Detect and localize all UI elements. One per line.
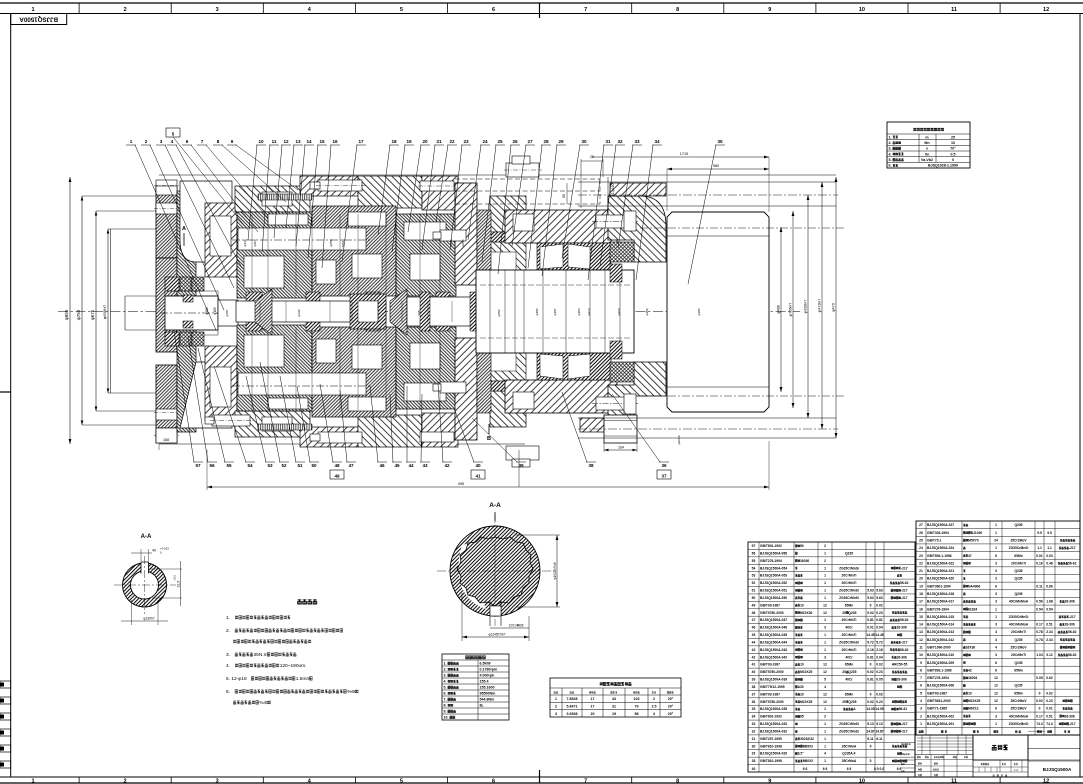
svg-text:12: 12 — [283, 139, 289, 144]
svg-text:0.23: 0.23 — [876, 611, 883, 615]
svg-text:2.: 2. — [226, 628, 230, 634]
svg-text:7.8528: 7.8528 — [567, 697, 578, 701]
svg-text:32: 32 — [617, 139, 623, 144]
revision header texts — [917, 756, 918, 758]
small A-A dim 40 — [140, 549, 142, 561]
svg-text:2.5: 2.5 — [652, 705, 657, 709]
svg-text:3.: 3. — [444, 674, 447, 678]
svg-text:3: 3 — [555, 712, 557, 716]
svg-text:35: 35 — [752, 707, 756, 711]
collar b lower — [306, 321, 320, 331]
svg-text:15: 15 — [319, 139, 325, 144]
svg-text:52: 52 — [281, 463, 287, 468]
svg-text:0.04: 0.04 — [876, 626, 883, 630]
svg-text:φ850: φ850 — [64, 309, 69, 320]
svg-text:0.51: 0.51 — [1046, 714, 1053, 718]
svg-text:6 6: 6 6 — [897, 767, 902, 771]
svg-text:54: 54 — [752, 566, 756, 570]
gear detail line x396 — [395, 214, 397, 296]
dim φ473H7 — [821, 182, 823, 429]
shaft tick x500 — [499, 301, 501, 322]
svg-text:495: 495 — [458, 482, 464, 486]
svg-text:2.: 2. — [444, 668, 447, 672]
svg-text:B: B — [487, 436, 491, 442]
small A-A crosshair — [144, 556, 146, 614]
housing end wall upper — [177, 191, 196, 311]
svg-text:4: 4 — [653, 712, 655, 716]
svg-text:8: 8 — [920, 668, 922, 672]
svg-text:GB/T276-1994: GB/T276-1994 — [760, 559, 782, 563]
bell foot — [604, 415, 637, 443]
svg-text:20: 20 — [591, 712, 595, 716]
svg-text:49: 49 — [334, 474, 340, 479]
svg-text:BJJSQ1500A-047: BJJSQ1500A-047 — [760, 618, 787, 622]
svg-text:2: 2 — [920, 714, 922, 718]
svg-text:12: 12 — [823, 663, 827, 667]
revision grid verticals — [921, 735, 923, 755]
gear A teeth window upper — [268, 214, 308, 225]
svg-text:36: 36 — [752, 700, 756, 704]
zone dividers top — [78, 3, 80, 14]
svg-text:3: 3 — [995, 638, 997, 642]
shaft step line x524 — [523, 270, 525, 353]
svg-text:12: 12 — [1043, 779, 1049, 784]
svg-text:31: 31 — [752, 737, 756, 741]
svg-text:3: 3 — [995, 714, 997, 718]
title block outline — [915, 735, 1080, 777]
svg-text:2: 2 — [124, 779, 127, 784]
flange end cap lower — [156, 428, 177, 437]
svg-text:-217: -217 — [901, 722, 908, 726]
svg-text:5.8471: 5.8471 — [567, 705, 578, 709]
svg-text:14.05: 14.05 — [875, 707, 883, 711]
dim 1715 top — [592, 156, 769, 158]
svg-text:6: 6 — [492, 779, 495, 784]
svg-text:30232/32: 30232/32 — [800, 737, 814, 741]
svg-text:9: 9 — [995, 707, 997, 711]
svg-text:23: 23 — [919, 554, 923, 558]
svg-text:BJJSQ1500A-035: BJJSQ1500A-035 — [760, 707, 787, 711]
svg-text:58: 58 — [635, 712, 639, 716]
svg-text:ZG35CrMnSi: ZG35CrMnSi — [839, 589, 859, 593]
svg-text:45: 45 — [752, 633, 756, 637]
flange bolt hole 2 upper — [156, 180, 177, 191]
ring gear right upper — [490, 196, 526, 232]
svg-text:20CrMnTi: 20CrMnTi — [1011, 653, 1026, 657]
embedded bolt in housing — [513, 214, 534, 231]
svg-text:56-62: 56-62 — [1068, 561, 1077, 565]
svg-text:0.01: 0.01 — [867, 626, 874, 630]
svg-text:17: 17 — [591, 705, 595, 709]
svg-text:1: 1 — [995, 523, 997, 527]
svg-text:φ486: φ486 — [777, 305, 781, 314]
svg-text:BJJSQ1500A-053: BJJSQ1500A-053 — [760, 574, 787, 578]
bell rim plate upper — [610, 183, 666, 196]
svg-text:φ346: φ346 — [449, 239, 453, 246]
svg-text:0.02: 0.02 — [1046, 691, 1053, 695]
svg-text:φ428H7: φ428H7 — [804, 300, 808, 314]
svg-text:1.04: 1.04 — [1036, 653, 1043, 657]
svg-text:155.4: 155.4 — [480, 680, 489, 684]
svg-text:11: 11 — [951, 7, 957, 13]
svg-text:1: 1 — [995, 722, 997, 726]
collar b upper — [306, 292, 320, 302]
svg-text:5.63: 5.63 — [876, 589, 883, 593]
svg-text:0.16: 0.16 — [1036, 561, 1043, 565]
svg-text:0.81: 0.81 — [867, 678, 874, 682]
svg-text:5.63: 5.63 — [867, 596, 874, 600]
svg-text:GB/T303-1994: GB/T303-1994 — [927, 531, 949, 535]
shaft tick x402 — [401, 301, 403, 322]
svg-text:0: 0 — [1039, 691, 1041, 695]
svg-text:BJJSQ1500A-039: BJJSQ1500A-039 — [760, 678, 787, 682]
svg-text:49: 49 — [752, 603, 756, 607]
svg-text:2: 2 — [824, 559, 826, 563]
svg-text:10: 10 — [919, 653, 923, 657]
svg-text:23: 23 — [463, 139, 469, 144]
svg-text:ZG35CrMnSi: ZG35CrMnSi — [839, 722, 859, 726]
svg-text:55: 55 — [752, 559, 756, 563]
svg-text:35CrMoA: 35CrMoA — [842, 759, 857, 763]
large A-A keyway slot — [490, 601, 501, 626]
svg-text:5.63: 5.63 — [867, 589, 874, 593]
svg-text:28: 28 — [520, 624, 524, 628]
output bearing zone lower — [537, 353, 611, 380]
svg-text:3: 3 — [995, 653, 997, 657]
svg-text:19: 19 — [612, 712, 616, 716]
svg-text:1: 1 — [995, 607, 997, 611]
svg-text:φ600H7: φ600H7 — [102, 304, 107, 319]
carrier pocket upper — [244, 256, 284, 288]
svg-text:φ250: φ250 — [461, 239, 465, 246]
svg-text:1.: 1. — [889, 135, 892, 139]
svg-text:GB/T3601-1994: GB/T3601-1994 — [927, 584, 951, 588]
svg-text:65: 65 — [562, 194, 566, 198]
svg-text:φ1910h7/s8: φ1910h7/s8 — [553, 562, 557, 579]
shaft step line x515 — [514, 270, 516, 353]
shaft tick x330 — [329, 301, 331, 322]
svg-text:BJJSQ1500A-006: BJJSQ1500A-006 — [927, 684, 954, 688]
svg-text:Mn: Mn — [924, 141, 929, 145]
svg-text:13: 13 — [919, 630, 923, 634]
seal block lower — [183, 321, 193, 328]
dim phi850 — [69, 177, 71, 444]
svg-text:70°: 70° — [950, 147, 956, 151]
top extension line — [159, 174, 836, 176]
svg-text:GB/T276-1994: GB/T276-1994 — [927, 607, 949, 611]
hidden coupling dashed box top — [455, 178, 600, 180]
svg-text:31: 31 — [612, 705, 616, 709]
flange bottom foot — [156, 428, 177, 443]
svg-text:10: 10 — [968, 691, 972, 695]
svg-text:ZG35CrMnSi: ZG35CrMnSi — [839, 729, 859, 733]
shaft step line x505 — [504, 270, 506, 353]
bevel gear parameter table — [887, 122, 970, 168]
svg-text:10: 10 — [859, 779, 865, 784]
drum inner bottom line — [667, 386, 769, 388]
spacer window lower — [316, 339, 336, 363]
svg-text:12: 12 — [994, 684, 998, 688]
gear C bore upper — [404, 222, 446, 240]
svg-text:21: 21 — [919, 569, 923, 573]
svg-text:1/2": 1/2" — [798, 752, 805, 756]
drum lower dashdot — [640, 395, 845, 397]
svg-text:1: 1 — [31, 779, 34, 784]
inner frame left — [10, 14, 12, 778]
svg-text:BJJSQ1500A-014: BJJSQ1500A-014 — [927, 623, 954, 627]
svg-text:ZG35CrMnSi: ZG35CrMnSi — [839, 566, 859, 570]
svg-text:11: 11 — [272, 139, 277, 144]
dim 980 top — [667, 168, 769, 170]
svg-text:54: 54 — [247, 463, 253, 468]
gear mass 1 lower — [237, 325, 312, 411]
svg-text:56-62: 56-62 — [900, 618, 909, 622]
bell bearing upper — [610, 242, 634, 262]
svg-text:0.56: 0.56 — [1036, 600, 1043, 604]
bottom cover bolt — [318, 432, 362, 443]
svg-text:GB/T71-1985: GB/T71-1985 — [927, 707, 947, 711]
svg-text:21: 21 — [436, 139, 442, 144]
svg-text:6.11: 6.11 — [867, 737, 873, 741]
svg-text:M85X2: M85X2 — [803, 744, 814, 748]
svg-text:M340: M340 — [341, 239, 345, 247]
svg-text:5: 5 — [920, 691, 922, 695]
shaft tick x286 — [285, 301, 287, 322]
svg-text:BJJSQ1500A-022: BJJSQ1500A-022 — [927, 561, 954, 565]
svg-text:0.02: 0.02 — [876, 663, 883, 667]
mid flange wall lower — [455, 338, 477, 440]
svg-text:4.000rph: 4.000rph — [480, 674, 495, 678]
carrier left wall upper — [205, 203, 237, 277]
svg-text:BJJSQ1500A-021: BJJSQ1500A-021 — [927, 569, 954, 573]
svg-text:20CrMnTi: 20CrMnTi — [842, 648, 857, 652]
dim phi600H7 — [107, 229, 109, 393]
svg-text:37: 37 — [752, 692, 756, 696]
svg-text:Q235A.F: Q235A.F — [842, 752, 855, 756]
svg-text:GB/T810-1998: GB/T810-1998 — [760, 759, 782, 763]
svg-text:0.48: 0.48 — [1046, 561, 1053, 565]
cavity A lower pocket — [180, 362, 232, 428]
svg-text:40Cr: 40Cr — [845, 655, 853, 659]
svg-text:0.54: 0.54 — [1036, 607, 1043, 611]
svg-text:20CrMnTi: 20CrMnTi — [842, 633, 857, 637]
output shaft body — [476, 270, 634, 353]
collar d lower — [436, 321, 450, 331]
svg-text:GB/T891-1992: GB/T891-1992 — [760, 715, 782, 719]
svg-text:3: 3 — [995, 600, 997, 604]
svg-text:ZG35CrMnSi: ZG35CrMnSi — [1009, 615, 1029, 619]
svg-text:8: 8 — [676, 7, 679, 13]
note line — [233, 701, 236, 704]
svg-text:6.: 6. — [889, 164, 892, 168]
svg-text:Q235: Q235 — [848, 670, 856, 674]
svg-text:8: 8 — [676, 779, 679, 784]
svg-text:24: 24 — [919, 546, 923, 550]
svg-text:5: 5 — [400, 7, 403, 13]
svg-text:10: 10 — [800, 663, 804, 667]
large A-A right dim — [516, 534, 560, 536]
svg-text:57: 57 — [195, 463, 201, 468]
svg-text:0.81: 0.81 — [867, 655, 874, 659]
svg-text:56-62: 56-62 — [1068, 630, 1077, 634]
gear detail line x386 — [385, 214, 387, 296]
svg-text:x: x — [926, 147, 928, 151]
svg-text:-217: -217 — [901, 640, 908, 644]
svg-text:GB/T93-1987: GB/T93-1987 — [760, 603, 780, 607]
svg-text:φ180: φ180 — [205, 307, 209, 315]
svg-text:2.16: 2.16 — [867, 648, 874, 652]
bearing inner race upper — [165, 277, 179, 291]
svg-text:M6X12: M6X12 — [968, 707, 979, 711]
svg-text:4: 4 — [920, 699, 922, 703]
svg-text:0.02: 0.02 — [867, 611, 874, 615]
svg-text:ZG35CrMnSi: ZG35CrMnSi — [1009, 722, 1029, 726]
svg-text:37: 37 — [661, 474, 667, 479]
svg-text:φ480: φ480 — [697, 308, 701, 315]
svg-text:65Mn: 65Mn — [1014, 691, 1022, 695]
svg-text:65Mn: 65Mn — [1014, 668, 1022, 672]
right bell flange upper — [608, 196, 666, 262]
svg-text:16004: 16004 — [968, 676, 977, 680]
svg-text:980: 980 — [713, 164, 719, 168]
svg-text:12X14: 12X14 — [509, 624, 518, 628]
svg-text:Xn: Xn — [925, 152, 930, 156]
svg-text:28: 28 — [543, 139, 549, 144]
svg-text:20CrMnTi: 20CrMnTi — [842, 574, 857, 578]
gear detail line x312 — [311, 214, 313, 296]
svg-text:1: 1 — [824, 722, 826, 726]
shaft tick x260 — [259, 301, 261, 322]
svg-text:2.34: 2.34 — [1046, 630, 1053, 634]
svg-text:25Cr2MoV: 25Cr2MoV — [1010, 645, 1027, 649]
dim 25 — [580, 159, 582, 208]
svg-text:28: 28 — [752, 759, 756, 763]
svg-text:5: 5 — [824, 678, 826, 682]
svg-text:M10X30: M10X30 — [800, 611, 812, 615]
large A-A crosshair — [494, 514, 496, 626]
svg-text:44: 44 — [752, 640, 756, 644]
svg-text:14: 14 — [919, 623, 923, 627]
svg-text:6: 6 — [995, 661, 997, 665]
svg-text:GB/T79/12-1995: GB/T79/12-1995 — [760, 685, 785, 689]
sheet outer border top — [0, 2, 1083, 4]
svg-text:φ750: φ750 — [76, 309, 81, 320]
svg-text:7.: 7. — [444, 698, 447, 702]
dim phi675 — [95, 211, 97, 411]
svg-text:28-306: 28-306 — [1065, 714, 1075, 718]
drum upper dashdot — [640, 227, 845, 229]
svg-text:BJJSQ1500A-043: BJJSQ1500A-043 — [760, 648, 787, 652]
svg-text:0.81: 0.81 — [876, 618, 883, 622]
svg-text:0: 0 — [952, 158, 954, 162]
svg-text:BJJSQ1500A-013: BJJSQ1500A-013 — [927, 630, 954, 634]
svg-text:GB/T93-1987: GB/T93-1987 — [760, 663, 780, 667]
svg-text:3: 3 — [920, 707, 922, 711]
svg-text:BJJSQ1500A-027: BJJSQ1500A-027 — [927, 523, 954, 527]
svg-text:16: 16 — [919, 607, 923, 611]
svg-text:30: 30 — [581, 139, 587, 144]
svg-text:BJJSQ1500A-002: BJJSQ1500A-002 — [927, 714, 954, 718]
svg-text:35N.m: 35N.m — [254, 652, 268, 658]
dim hub bracket — [124, 296, 126, 330]
left edge fold mark — [0, 391, 11, 393]
svg-text:6: 6 — [995, 584, 997, 588]
collar c upper — [366, 292, 380, 302]
svg-text:Q235: Q235 — [1014, 661, 1022, 665]
designer rows — [918, 763, 919, 765]
svg-text:3: 3 — [824, 655, 826, 659]
dim 65 — [566, 183, 568, 204]
svg-text:43: 43 — [612, 697, 616, 701]
svg-text:6: 6 — [995, 554, 997, 558]
svg-text:1: 1 — [130, 139, 133, 144]
flange bolt hole 2 lower — [156, 432, 177, 443]
svg-text:BJJSQ1500A-032: BJJSQ1500A-032 — [760, 729, 787, 733]
svg-text:3.9308: 3.9308 — [567, 712, 578, 716]
svg-text:-217: -217 — [901, 729, 908, 733]
svg-text:20: 20 — [422, 139, 428, 144]
svg-text:4: 4 — [824, 685, 826, 689]
right bell flange lower — [608, 362, 666, 427]
carrier disc right lower — [477, 333, 491, 413]
output bearing zone upper — [537, 243, 611, 270]
title box top-left with rotated drawing number — [11, 14, 67, 25]
shaft collar 2 — [470, 292, 480, 331]
flange bolt hole lower — [156, 409, 177, 420]
svg-text:1.: 1. — [226, 615, 230, 621]
svg-text:3.: 3. — [889, 147, 892, 151]
gear B window lower — [352, 345, 382, 369]
svg-text:26: 26 — [512, 139, 518, 144]
mid flange wall upper — [455, 183, 477, 285]
large A-A bottom dim keyway — [528, 616, 530, 641]
svg-text:5.: 5. — [889, 158, 892, 162]
svg-text:19: 19 — [406, 139, 412, 144]
svg-text:0.5: 0.5 — [951, 152, 956, 156]
svg-text:40Cr: 40Cr — [845, 678, 853, 682]
svg-text:GB/T5780-2000: GB/T5780-2000 — [760, 700, 784, 704]
svg-text:25Cr2MoV: 25Cr2MoV — [1010, 538, 1027, 542]
dim phi750 — [81, 196, 83, 425]
housing pocket lower — [262, 417, 292, 431]
svg-text:4.: 4. — [444, 680, 447, 684]
svg-text:BJJSQ1500A-046: BJJSQ1500A-046 — [760, 626, 787, 630]
shaft collar hatch — [610, 264, 622, 282]
svg-text:10.: 10. — [444, 716, 449, 720]
housing band C upper — [358, 176, 422, 208]
dim φ486 — [780, 227, 782, 392]
assembly name cell — [973, 735, 1028, 760]
drawing number cell — [1027, 735, 1029, 777]
svg-text:13: 13 — [295, 139, 301, 144]
svg-text:3: 3 — [995, 623, 997, 627]
svg-text:53: 53 — [752, 574, 756, 578]
svg-text:φ258: φ258 — [329, 239, 333, 246]
svg-text:0.01: 0.01 — [1046, 707, 1053, 711]
svg-text:544.8Nm: 544.8Nm — [480, 698, 495, 702]
inner frame right — [1079, 14, 1081, 778]
collar d upper — [436, 292, 450, 302]
svg-text:GB/T893.1-1986: GB/T893.1-1986 — [927, 668, 952, 672]
svg-text:BJJSQ1500A-052: BJJSQ1500A-052 — [760, 581, 787, 585]
svg-text:Q235: Q235 — [1014, 523, 1022, 527]
svg-text:BJJSQ1500A-045: BJJSQ1500A-045 — [760, 633, 787, 637]
svg-text:BJJSQ1500A-054: BJJSQ1500A-054 — [760, 566, 787, 570]
cavity A pocket — [180, 181, 232, 262]
svg-text:m: m — [925, 135, 928, 139]
BOM table right (items 27-1) — [916, 521, 1080, 735]
svg-text:11: 11 — [919, 645, 923, 649]
